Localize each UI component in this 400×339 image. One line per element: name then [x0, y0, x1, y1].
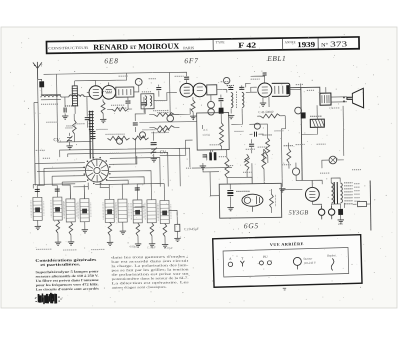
IF transformer T2	[231, 93, 233, 108]
antenna	[33, 62, 42, 80]
wire mid drop	[201, 125, 203, 129]
wire to grid resistor	[56, 74, 58, 97]
wire transformer primary	[331, 178, 340, 183]
wire 6E8 stage frame	[96, 79, 117, 81]
bus wire r5	[100, 182, 109, 187]
tuning coil unit L3	[56, 185, 58, 197]
magic eye shield box	[219, 183, 281, 218]
fuse switch	[357, 202, 366, 207]
tube 6E8 envelope	[89, 86, 103, 100]
wire B+ vertical	[301, 87, 302, 180]
wire hv to 6F7	[170, 113, 179, 115]
osc resistor row3	[154, 126, 174, 130]
IF transformer T1	[141, 94, 154, 109]
wire big loop left	[56, 97, 59, 142]
tuning coil unit L4	[69, 185, 71, 199]
svg-text:C.10-45μF: C.10-45μF	[184, 227, 200, 231]
svg-text:CONSTRUCTEUR: CONSTRUCTEUR	[48, 46, 89, 51]
power transformer	[334, 182, 337, 204]
wire T1 to 6F7	[154, 92, 177, 100]
6G5 grid resistor	[269, 194, 273, 208]
6E8 cathode resistor	[101, 101, 105, 113]
wire top rail drop	[117, 73, 127, 80]
svg-text:5Y3GB: 5Y3GB	[289, 209, 309, 216]
field coil choke	[310, 119, 324, 127]
6E8 screen callout	[135, 78, 142, 85]
wire switch to left bus	[37, 170, 85, 173]
wire top rail	[57, 73, 127, 74]
bus wire r4	[106, 180, 128, 184]
wire down EBL1	[281, 116, 285, 129]
wire EBL1 bus	[246, 83, 251, 87]
svg-text:6F7: 6F7	[184, 56, 198, 65]
wire mid connections	[179, 108, 190, 114]
resistor upper small	[157, 129, 169, 133]
wire AVC rail	[139, 121, 196, 124]
voltage selector	[292, 168, 299, 175]
divider resistor D2	[262, 149, 266, 169]
svg-text:EBL1: EBL1	[266, 54, 286, 63]
wire AF couplings	[231, 113, 242, 124]
wire down from T1	[135, 109, 145, 121]
panel ground mark	[283, 288, 286, 290]
svg-text:et particulières.: et particulières.	[40, 262, 80, 267]
loudspeaker	[347, 88, 364, 108]
scan speckle noise	[249, 35, 252, 38]
magic eye bypass cap	[227, 191, 233, 193]
wire rect top	[302, 179, 312, 181]
svg-text:ET: ET	[130, 46, 137, 51]
AF resistor Ra	[220, 113, 222, 123]
svg-text:CV₁: CV₁	[53, 137, 61, 142]
bus wire b4	[62, 181, 86, 183]
svg-text:4.90μF: 4.90μF	[129, 244, 138, 248]
svg-text:6G5: 6G5	[244, 221, 259, 230]
AF cap Cc	[254, 132, 256, 137]
svg-text:ANNEE: ANNEE	[285, 40, 296, 44]
svg-text:1.10μF: 1.10μF	[147, 245, 156, 249]
tuning coil unit L5	[83, 185, 85, 199]
svg-text:R.6: R.6	[202, 128, 208, 132]
wire box feeds	[180, 148, 190, 167]
bus wire r3	[109, 177, 144, 185]
tuning coil unit L10	[163, 184, 165, 201]
input coil lower resistor	[72, 120, 76, 134]
divider resistor D1	[225, 158, 229, 178]
tube EBL1 envelope	[258, 83, 272, 97]
wire 6G5 feeds	[210, 172, 219, 196]
filter electrolytic	[338, 209, 343, 215]
bus wire b2	[44, 167, 85, 170]
svg-text:2x8: 2x8	[338, 222, 343, 226]
bus wire r1	[109, 156, 137, 164]
value labels scatter	[103, 90, 113, 92]
svg-text:CV₂: CV₂	[160, 149, 168, 154]
padding cap block	[141, 103, 147, 105]
svg-text:PARIS: PARIS	[183, 46, 194, 50]
6F7 cathode R	[191, 100, 195, 112]
rotary wave-change switch	[85, 159, 108, 182]
EBL1 grid leak	[260, 114, 280, 118]
rear view panel	[213, 235, 362, 288]
padder cap series	[89, 132, 95, 134]
bus wire b5	[73, 186, 88, 188]
input coil L1	[72, 86, 77, 106]
svg-text:N°: N°	[321, 41, 328, 48]
resistor chain left	[107, 136, 129, 140]
rectifier 5Y3 envelope	[305, 187, 319, 201]
wire T2 out	[241, 108, 243, 113]
tuning coil unit L6	[108, 184, 110, 199]
svg-text:1.17μF: 1.17μF	[164, 246, 173, 250]
osc grid resistor 50k	[112, 107, 128, 111]
grid coupling cap C50000	[85, 118, 90, 120]
padder C10-45	[175, 224, 180, 231]
input filter series coil	[69, 95, 84, 97]
bus loop inner	[68, 152, 168, 187]
svg-text:TYPE: TYPE	[216, 40, 225, 44]
tuning coil unit L8	[136, 184, 138, 200]
svg-text:Repère: Repère	[326, 253, 336, 257]
svg-text:6E8: 6E8	[104, 56, 118, 65]
svg-text:373: 373	[330, 39, 347, 48]
svg-text:C.45-50000: C.45-50000	[258, 110, 274, 114]
wire left vertical bus	[34, 102, 35, 185]
svg-text:VUE ARRIÈRE: VUE ARRIÈRE	[270, 241, 304, 247]
bus wire b1	[35, 162, 85, 165]
wire osc line down	[135, 138, 137, 164]
wire EBL1 to OT	[290, 87, 320, 93]
wire antenna down-lead	[38, 79, 40, 185]
tuning coil unit L9	[150, 184, 152, 200]
antenna filter choke A472	[41, 95, 61, 97]
svg-text:P.U: P.U	[262, 255, 268, 259]
header title block	[46, 37, 359, 53]
antenna coupling capacitor	[39, 81, 44, 87]
wire speaker return	[342, 106, 344, 128]
wire OT to speaker	[331, 96, 347, 98]
oscillator shield box	[197, 113, 230, 150]
AF box resistor	[219, 123, 223, 147]
6F7 screen caps	[218, 99, 223, 101]
osc coupling circle	[139, 132, 145, 138]
svg-text:110-245 V: 110-245 V	[303, 261, 317, 265]
svg-text:MOIROUX: MOIROUX	[138, 42, 180, 52]
wire 6E8 grid	[87, 92, 89, 94]
T2 callout	[223, 77, 229, 83]
filter shunt cap	[64, 107, 66, 112]
tube 6G5 eye	[242, 194, 263, 206]
callout left c	[117, 138, 123, 144]
6E8 anode cap	[125, 101, 130, 103]
tuning coil unit L2	[36, 185, 38, 197]
divider resistor D3	[251, 163, 253, 183]
bus wire b3	[52, 175, 85, 177]
svg-text:1939: 1939	[297, 40, 315, 49]
mains plugs	[318, 209, 324, 215]
wire bottom rail	[169, 210, 178, 215]
AF resistor Rb	[266, 138, 270, 156]
wire loop bottom	[58, 141, 92, 144]
tuning coil unit L7	[121, 184, 123, 199]
dial lamp	[329, 156, 337, 164]
tube 6F7 envelope	[180, 83, 194, 97]
volume pot	[245, 154, 249, 170]
bus loop outer	[60, 148, 181, 188]
6F7 callout a	[208, 101, 215, 108]
wire right rail	[369, 180, 372, 230]
AF resistor Rc	[287, 149, 291, 163]
osc resistor row2	[154, 113, 174, 117]
resistor chain mid	[132, 136, 148, 140]
svg-text:autres étages sont classiques.: autres étages sont classiques.	[112, 285, 167, 290]
wire T2 in	[217, 90, 227, 93]
svg-text:RENARD: RENARD	[93, 42, 129, 52]
wire hv rail mid	[169, 72, 172, 114]
bus loop third	[110, 158, 164, 185]
EBL1 cathode	[262, 98, 264, 103]
6F7 grid cap top	[184, 77, 189, 79]
output transformer	[320, 93, 331, 105]
svg-text:50/0Ω: 50/0Ω	[202, 133, 210, 137]
wire osc box to switch	[160, 140, 193, 155]
ink smudge	[38, 294, 40, 302]
callout mid b	[254, 123, 260, 129]
svg-text:F 42: F 42	[238, 41, 256, 50]
switch shielded stem	[89, 111, 92, 159]
EBL1 callout	[295, 107, 302, 114]
T1 top cap	[156, 88, 161, 90]
bank top bus	[33, 183, 75, 186]
AF cap Cd	[249, 144, 254, 146]
bus wire r2	[109, 171, 151, 188]
wire power bottom	[312, 201, 321, 209]
box bottom electrolytics	[209, 152, 212, 160]
